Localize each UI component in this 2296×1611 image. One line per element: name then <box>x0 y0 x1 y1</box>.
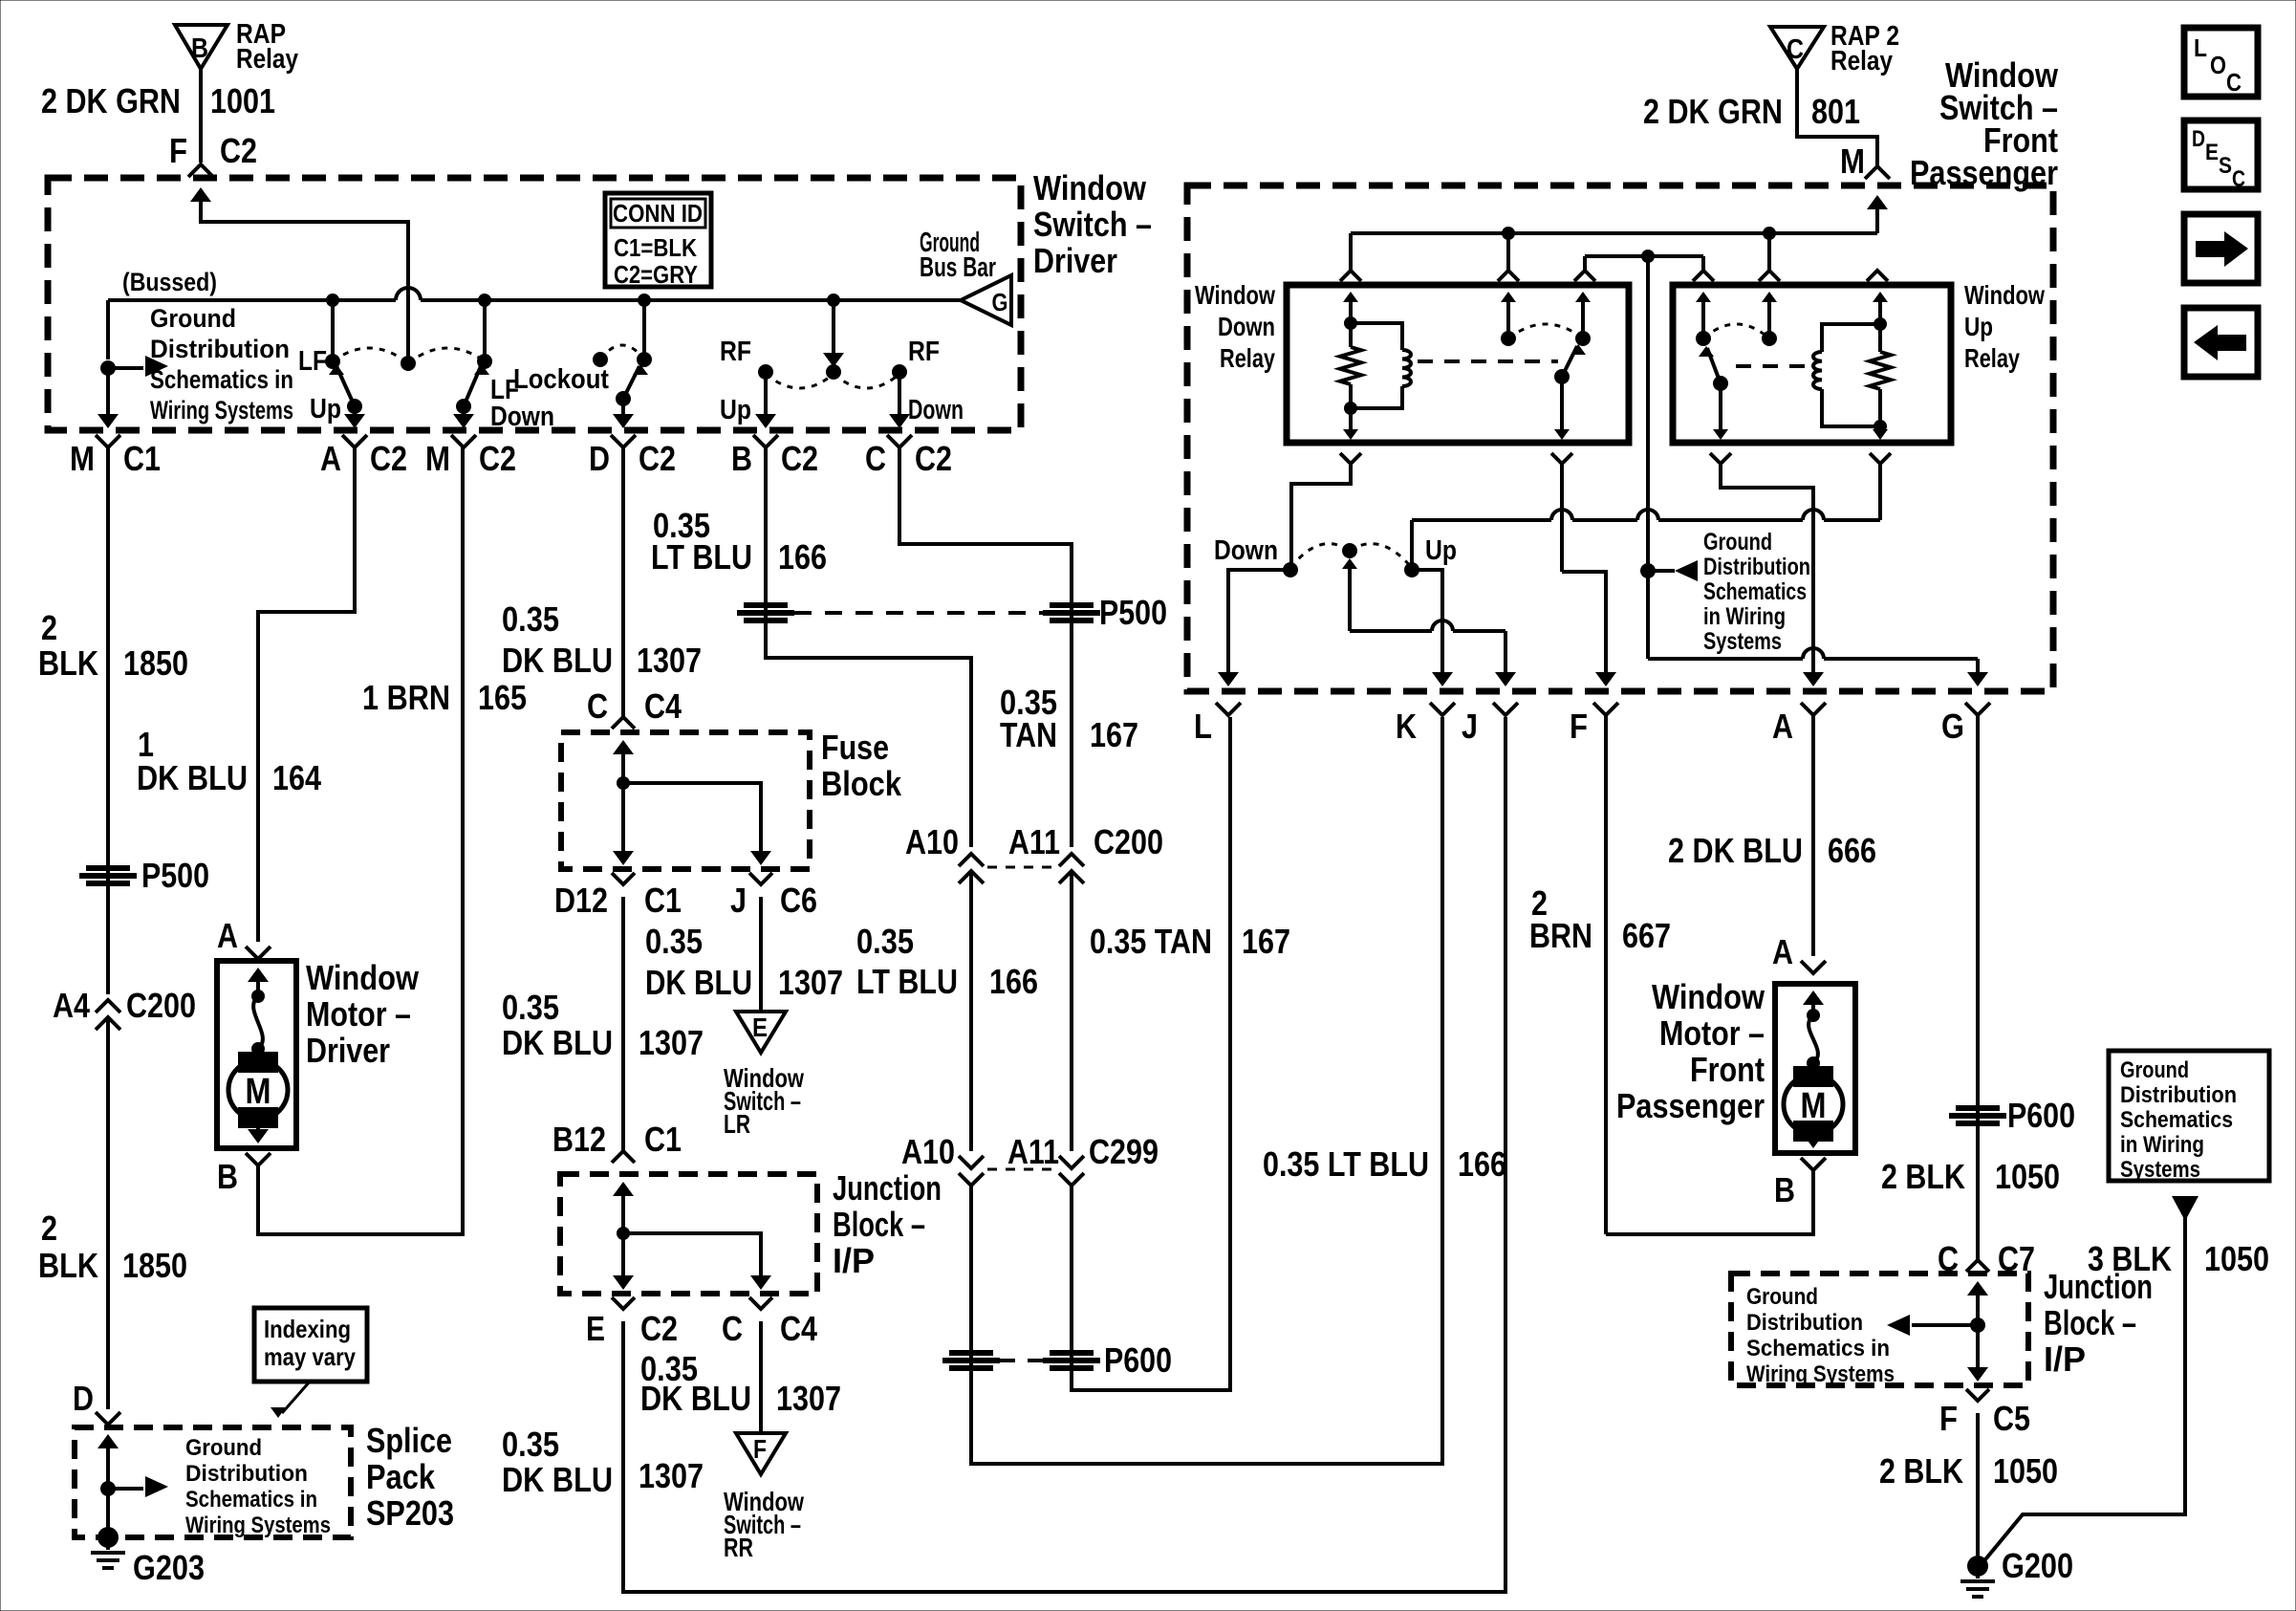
wire 166 jog to A10 <box>766 625 971 847</box>
svg-text:C200: C200 <box>1094 822 1163 861</box>
svg-text:C200: C200 <box>126 986 196 1025</box>
svg-text:A11: A11 <box>1008 822 1060 861</box>
switch RF Down contact <box>892 364 907 380</box>
ground G200 <box>1967 1556 1988 1577</box>
legend box arrow right <box>2184 214 2258 283</box>
connector chevrons into relays <box>1340 271 1361 281</box>
svg-text:DK BLU: DK BLU <box>502 641 613 680</box>
switch RF Up contact <box>758 364 773 380</box>
wire F feed into switch <box>190 187 211 202</box>
svg-text:RF: RF <box>908 337 940 367</box>
sub feed to relay coils <box>1585 254 1703 258</box>
grommet P500 left <box>86 865 130 871</box>
svg-text:S: S <box>2219 153 2232 179</box>
connector pin M C2 under driver switch <box>451 435 476 447</box>
svg-text:2 BLK: 2 BLK <box>1879 1451 1963 1491</box>
svg-text:F: F <box>753 1434 767 1464</box>
svg-text:Down: Down <box>490 402 554 432</box>
svg-text:2: 2 <box>41 1208 57 1248</box>
svg-text:Driver: Driver <box>306 1031 390 1070</box>
svg-text:C: C <box>722 1309 743 1348</box>
svg-text:(Bussed): (Bussed) <box>122 268 217 296</box>
svg-text:G203: G203 <box>133 1548 205 1587</box>
svg-text:166: 166 <box>1458 1144 1506 1184</box>
legend box DESC <box>2184 120 2258 189</box>
svg-text:M: M <box>246 1072 271 1112</box>
svg-text:LT BLU: LT BLU <box>651 537 752 577</box>
svg-text:B: B <box>731 439 752 478</box>
svg-text:167: 167 <box>1242 922 1290 961</box>
junction dot bus at RF <box>827 294 840 307</box>
switch Lockout <box>642 300 646 359</box>
svg-text:E: E <box>2205 140 2219 165</box>
svg-text:D12: D12 <box>554 881 608 920</box>
wires inside junction block IP right <box>1967 1281 1988 1295</box>
connector pin A C2 under driver switch <box>342 435 367 447</box>
svg-text:1050: 1050 <box>1995 1157 2060 1196</box>
connector pin B C2 under driver switch <box>753 435 778 447</box>
svg-text:0.35: 0.35 <box>502 599 559 639</box>
svg-text:Window: Window <box>1964 280 2045 310</box>
svg-text:C6: C6 <box>780 881 817 920</box>
dashed link P600 <box>1000 1359 1043 1362</box>
wire bus left leg to M C1 <box>106 368 110 405</box>
triangle E window switch LR <box>736 1012 786 1053</box>
svg-text:0.35 TAN: 0.35 TAN <box>1090 922 1212 961</box>
svg-text:Distribution: Distribution <box>150 335 290 363</box>
wires inside fuse block <box>613 740 634 754</box>
svg-text:TAN: TAN <box>1000 715 1057 754</box>
svg-text:M: M <box>1840 142 1865 181</box>
svg-text:C5: C5 <box>1993 1399 2030 1438</box>
switch LF Up <box>331 300 335 361</box>
box Ground Distribution Schematics right <box>2109 1051 2269 1181</box>
ground G203 <box>97 1527 119 1548</box>
svg-text:C1: C1 <box>644 881 682 920</box>
svg-text:C2: C2 <box>479 439 516 478</box>
wire motor driver B to M C2 wire <box>258 447 463 1234</box>
svg-text:Window: Window <box>1652 977 1765 1016</box>
relay2 resistor branch <box>1873 292 1888 302</box>
svg-text:F: F <box>1570 707 1588 746</box>
svg-text:Down: Down <box>908 395 964 425</box>
motor driver internals <box>248 968 269 982</box>
svg-text:I/P: I/P <box>2044 1339 2086 1379</box>
svg-text:Window: Window <box>306 958 420 997</box>
svg-text:666: 666 <box>1828 831 1876 870</box>
wire to G200 <box>1976 1413 1980 1558</box>
svg-text:Splice: Splice <box>366 1421 452 1460</box>
svg-text:Up: Up <box>1425 535 1457 566</box>
svg-text:DK BLU: DK BLU <box>502 1023 613 1062</box>
connector D12 C1 <box>612 873 635 884</box>
wire J C6 to window switch LR <box>759 897 763 1012</box>
svg-text:Schematics: Schematics <box>2120 1107 2233 1133</box>
svg-text:165: 165 <box>478 678 527 717</box>
svg-text:C2: C2 <box>220 131 257 170</box>
triangle F window switch RR <box>736 1433 786 1474</box>
wire 167 to P600 <box>1070 1186 1073 1377</box>
svg-text:Lockout: Lockout <box>513 364 609 395</box>
svg-text:DK BLU: DK BLU <box>640 1379 751 1418</box>
svg-text:C2: C2 <box>640 1309 678 1348</box>
ground bus bar triangle G <box>961 275 1011 325</box>
svg-text:0.35: 0.35 <box>645 922 703 961</box>
svg-text:Motor –: Motor – <box>1659 1013 1765 1053</box>
grommet P600 G wire <box>1956 1105 2000 1111</box>
svg-text:P500: P500 <box>1099 593 1167 632</box>
grommet P600 right <box>1050 1350 1094 1356</box>
svg-text:J: J <box>1462 707 1478 746</box>
svg-text:L: L <box>2194 33 2207 62</box>
svg-text:167: 167 <box>1090 715 1138 754</box>
relay2 linkage dashed <box>1736 364 1807 368</box>
svg-text:A11: A11 <box>1007 1132 1059 1171</box>
svg-text:166: 166 <box>989 962 1038 1001</box>
svg-text:D: D <box>589 439 610 478</box>
svg-text:A10: A10 <box>905 822 959 861</box>
wire 166 to passenger K <box>971 717 1442 1464</box>
svg-text:1001: 1001 <box>210 81 275 120</box>
svg-text:Indexing: Indexing <box>264 1315 351 1343</box>
svg-text:DK BLU: DK BLU <box>502 1460 613 1499</box>
svg-text:E: E <box>586 1309 605 1348</box>
svg-text:A: A <box>320 439 341 478</box>
svg-text:2 DK GRN: 2 DK GRN <box>1643 92 1783 131</box>
svg-text:CONN ID: CONN ID <box>613 199 703 228</box>
wire common to J <box>1350 629 1432 633</box>
svg-text:0.35: 0.35 <box>856 922 914 961</box>
relay1 coil branch <box>1351 323 1402 350</box>
svg-text:Systems: Systems <box>1703 628 1782 655</box>
wire Up to K <box>1412 570 1442 677</box>
svg-text:C2: C2 <box>370 439 407 478</box>
svg-text:Ground: Ground <box>1746 1284 1818 1310</box>
dashed box Window Switch - Front Passenger <box>1187 185 2053 691</box>
svg-text:Switch –: Switch – <box>1033 205 1152 244</box>
svg-text:Driver: Driver <box>1033 241 1117 280</box>
svg-text:Block –: Block – <box>833 1205 925 1244</box>
svg-text:0.35: 0.35 <box>502 1425 559 1464</box>
svg-text:A4: A4 <box>53 986 90 1025</box>
dashed box Junction Block IP right <box>1731 1274 2028 1385</box>
wire C C4 to window switch RR <box>759 1321 763 1433</box>
svg-text:Block –: Block – <box>2044 1303 2136 1342</box>
label B motor passenger <box>1801 1158 1826 1170</box>
wire Down to L <box>1228 570 1290 677</box>
grommet P600 left <box>949 1350 993 1356</box>
svg-text:BLK: BLK <box>38 643 98 683</box>
blade common passenger switch <box>1342 558 1357 569</box>
wire relay2 switch output to A <box>1721 464 1813 677</box>
svg-text:Schematics in: Schematics in <box>185 1487 317 1513</box>
svg-text:L: L <box>1194 707 1212 746</box>
svg-text:B12: B12 <box>552 1120 606 1159</box>
wire long vertical to G <box>1648 657 1803 661</box>
connector C C4 lower <box>749 1297 772 1309</box>
wire RAP relay to F C2 <box>199 69 203 163</box>
linkage dashed arcs LF <box>333 348 408 363</box>
svg-text:BLK: BLK <box>38 1246 98 1285</box>
svg-text:1 BRN: 1 BRN <box>362 678 450 717</box>
svg-text:in Wiring: in Wiring <box>1703 603 1786 630</box>
svg-text:Relay: Relay <box>1964 343 2020 373</box>
wire 166 between C200 C299 <box>969 871 973 1151</box>
wire B C2 circuit 166 <box>764 447 768 658</box>
svg-text:RF: RF <box>720 337 751 367</box>
box Indexing may vary <box>254 1308 367 1382</box>
svg-text:1307: 1307 <box>637 641 702 680</box>
svg-text:Wiring Systems: Wiring Systems <box>150 396 293 425</box>
svg-text:C4: C4 <box>644 686 682 726</box>
svg-text:B: B <box>217 1157 238 1196</box>
svg-text:C2: C2 <box>781 439 818 478</box>
svg-text:K: K <box>1396 707 1417 746</box>
svg-text:1050: 1050 <box>1993 1451 2058 1491</box>
svg-text:Pack: Pack <box>366 1457 436 1496</box>
svg-text:0.35 LT BLU: 0.35 LT BLU <box>1263 1144 1429 1184</box>
svg-text:D: D <box>2192 126 2205 152</box>
wire C C2 circuit 167 <box>899 447 1072 847</box>
svg-text:2: 2 <box>41 608 57 647</box>
svg-text:LF: LF <box>298 346 327 377</box>
svg-text:F: F <box>169 131 187 170</box>
dashed box Window Switch - Driver <box>48 178 1021 430</box>
svg-text:M: M <box>70 439 95 478</box>
motor passenger internals <box>1803 991 1824 1005</box>
svg-text:Down: Down <box>1218 312 1275 341</box>
linkage dashed arcs RF <box>766 374 834 388</box>
svg-text:Schematics in: Schematics in <box>150 365 293 394</box>
svg-text:1850: 1850 <box>123 643 188 683</box>
svg-text:B: B <box>1774 1170 1795 1209</box>
svg-text:C1=BLK: C1=BLK <box>614 233 697 262</box>
wire 167 between C200 C299 <box>1070 871 1073 1151</box>
wire E C2 circuit 1307 to passenger J <box>623 717 1505 1592</box>
svg-text:1307: 1307 <box>776 1379 841 1418</box>
legend box arrow left <box>2184 308 2258 377</box>
CONN ID box <box>605 193 711 287</box>
junction dot bus at LF Up <box>326 294 339 307</box>
connector pin D C2 under driver switch <box>611 435 636 447</box>
relay2 switch <box>1701 299 1705 338</box>
relay1 resistor branch <box>1343 292 1358 302</box>
relay2 coil branch <box>1822 324 1880 352</box>
wire 167 to passenger L <box>1072 717 1230 1390</box>
svg-text:P600: P600 <box>1104 1340 1172 1380</box>
svg-text:BRN: BRN <box>1529 916 1592 955</box>
svg-text:1050: 1050 <box>2204 1239 2269 1278</box>
svg-text:O: O <box>2210 51 2226 79</box>
connector pin C C2 under driver switch <box>887 435 912 447</box>
connector F C5 <box>1966 1389 1989 1401</box>
svg-text:Distribution: Distribution <box>1746 1310 1863 1336</box>
power triangle C RAP 2 Relay <box>1770 27 1824 69</box>
wire motor passenger B to F wire <box>1606 1170 1813 1234</box>
connector J C6 <box>749 873 772 884</box>
svg-text:J: J <box>730 881 747 920</box>
switch LF Down <box>483 300 487 361</box>
power triangle B RAP Relay <box>175 25 227 69</box>
svg-text:D: D <box>73 1379 94 1418</box>
svg-text:Up: Up <box>310 394 341 425</box>
svg-text:Schematics in: Schematics in <box>1746 1336 1890 1361</box>
svg-text:C1: C1 <box>123 439 161 478</box>
inline connector A4 C200 <box>96 1000 120 1012</box>
wire relay1 switch output to F <box>1560 464 1564 572</box>
svg-text:Passenger: Passenger <box>1616 1086 1765 1125</box>
svg-text:Ground: Ground <box>1703 529 1772 555</box>
svg-text:Ground: Ground <box>150 304 236 333</box>
svg-text:C4: C4 <box>780 1309 817 1348</box>
svg-text:667: 667 <box>1622 916 1671 955</box>
svg-text:DK BLU: DK BLU <box>137 758 248 797</box>
svg-text:Relay: Relay <box>1830 46 1893 76</box>
long vertical to G terminal <box>1646 256 1650 659</box>
svg-text:G200: G200 <box>2002 1546 2073 1585</box>
svg-text:G: G <box>992 288 1008 316</box>
dashed link P500 <box>794 611 1043 615</box>
svg-text:0.35: 0.35 <box>502 988 559 1027</box>
svg-text:C2: C2 <box>915 439 952 478</box>
svg-text:2 BLK: 2 BLK <box>1881 1157 1965 1196</box>
svg-text:Ground: Ground <box>2120 1057 2189 1083</box>
junction dot bus at LF Down <box>478 294 491 307</box>
svg-text:Motor –: Motor – <box>306 994 411 1034</box>
svg-text:C: C <box>1787 34 1804 65</box>
wires inside junction block IP left <box>613 1182 634 1196</box>
relay1 linkage dashed <box>1418 359 1558 363</box>
window motor front passenger box <box>1775 984 1855 1153</box>
node ground distribution callout left <box>100 360 116 376</box>
svg-text:I/P: I/P <box>833 1241 875 1280</box>
svg-text:Fuse: Fuse <box>821 728 889 767</box>
wire inside splice pack <box>97 1434 119 1448</box>
svg-text:RR: RR <box>724 1533 753 1562</box>
svg-text:Window: Window <box>1195 280 1275 310</box>
wire M feed inside <box>1867 195 1888 209</box>
connector F chevron <box>188 164 213 177</box>
svg-text:E: E <box>752 1012 768 1042</box>
svg-text:1307: 1307 <box>778 963 843 1002</box>
svg-text:A: A <box>1772 707 1793 746</box>
wire 3 BLK 1050 from schematics box <box>2172 1196 2199 1221</box>
svg-text:Down: Down <box>1214 535 1278 566</box>
connector pins under passenger switch <box>1216 703 1241 715</box>
wire A C2 to window motor driver <box>258 447 355 942</box>
svg-text:C: C <box>587 686 608 726</box>
chevrons below relays <box>1340 453 1361 464</box>
dashed box Splice Pack SP203 <box>75 1427 351 1537</box>
svg-text:may vary: may vary <box>264 1342 356 1371</box>
grommet P500 on 167 wire <box>1050 602 1094 608</box>
switch RF common feed <box>832 300 835 354</box>
svg-text:P600: P600 <box>2007 1096 2075 1135</box>
svg-text:Junction: Junction <box>833 1168 942 1208</box>
svg-text:Block: Block <box>821 764 902 803</box>
wire 166 to P600 <box>969 1186 973 1377</box>
wire G circuit 1050 <box>1976 715 1980 1260</box>
svg-text:C1: C1 <box>644 1120 682 1159</box>
svg-text:C2=GRY: C2=GRY <box>614 260 698 289</box>
svg-text:Distribution: Distribution <box>2120 1082 2237 1108</box>
svg-text:C299: C299 <box>1089 1132 1159 1171</box>
svg-text:Up: Up <box>1964 312 1993 341</box>
svg-text:LR: LR <box>724 1109 750 1139</box>
svg-text:Schematics: Schematics <box>1703 578 1807 605</box>
svg-text:M: M <box>425 439 450 478</box>
wire relay1 coil output to Down contact <box>1291 464 1351 566</box>
svg-text:Distribution: Distribution <box>185 1461 308 1487</box>
wire RAP2 to M <box>1797 69 1877 166</box>
svg-text:Front: Front <box>1690 1050 1765 1089</box>
svg-text:B: B <box>191 33 208 64</box>
svg-text:DK BLU: DK BLU <box>645 963 752 1002</box>
svg-text:G: G <box>1941 707 1964 746</box>
svg-text:Window: Window <box>1033 168 1147 207</box>
svg-text:1307: 1307 <box>639 1456 704 1495</box>
relay box Window Up Relay <box>1673 285 1951 443</box>
svg-text:1850: 1850 <box>122 1246 187 1285</box>
svg-text:C: C <box>2232 166 2245 192</box>
svg-text:in Wiring: in Wiring <box>2120 1132 2204 1158</box>
legend box LOC <box>2184 28 2258 97</box>
grommet P500 right <box>744 602 788 608</box>
svg-text:Relay: Relay <box>236 44 298 75</box>
svg-text:LT BLU: LT BLU <box>856 962 958 1001</box>
node ground distribution callout passenger <box>1640 563 1656 578</box>
svg-text:Ground: Ground <box>185 1435 262 1461</box>
wire D C2 circuit 1307 to fuse block <box>621 447 625 717</box>
svg-text:Up: Up <box>720 395 751 425</box>
svg-text:166: 166 <box>778 537 827 577</box>
wire A circuit 666 to motor <box>1811 715 1815 956</box>
svg-text:Relay: Relay <box>1220 343 1275 373</box>
svg-text:A: A <box>217 916 238 955</box>
svg-text:2 DK BLU: 2 DK BLU <box>1668 831 1803 870</box>
junction dot bus at Lockout <box>638 294 651 307</box>
wire to splice pack D <box>106 1017 110 1409</box>
svg-text:C: C <box>865 439 886 478</box>
ground bus wire (bussed) <box>108 298 396 302</box>
window motor driver box <box>217 961 296 1148</box>
svg-text:Wiring Systems: Wiring Systems <box>185 1513 331 1538</box>
svg-text:1307: 1307 <box>639 1023 704 1062</box>
svg-text:801: 801 <box>1811 92 1860 131</box>
bus B+ passenger <box>1351 231 1877 235</box>
svg-text:P500: P500 <box>141 856 209 895</box>
label B motor driver <box>246 1153 271 1165</box>
svg-text:Distribution: Distribution <box>1703 554 1810 580</box>
svg-text:A10: A10 <box>901 1132 955 1171</box>
wire M C1 circuit 1850 upper <box>106 447 110 994</box>
svg-text:M: M <box>1801 1086 1827 1126</box>
wire F circuit 667 <box>1604 715 1608 1234</box>
svg-text:SP203: SP203 <box>366 1493 454 1533</box>
svg-text:C: C <box>2226 68 2242 97</box>
svg-text:F: F <box>1939 1399 1958 1438</box>
node LF common <box>401 356 416 371</box>
relay box Window Down Relay <box>1287 285 1629 443</box>
svg-text:C2: C2 <box>639 439 676 478</box>
svg-text:A: A <box>1772 932 1793 971</box>
dashed box Fuse Block <box>561 732 810 869</box>
wire Up to relay2 coil <box>1410 520 1414 570</box>
dashed box Junction Block IP left <box>560 1174 817 1294</box>
svg-text:Systems: Systems <box>2120 1157 2200 1183</box>
svg-text:Bus Bar: Bus Bar <box>920 252 996 283</box>
wire D12 C1 circuit 1307 down <box>621 897 625 1151</box>
